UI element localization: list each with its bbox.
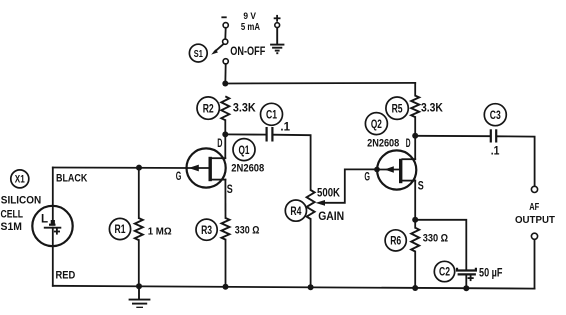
wire pot to rail [310,219,312,287]
svg-text:C1: C1 [266,108,277,122]
Q1 labels [176,136,265,196]
AF output label [515,202,555,226]
resistor R1 [109,168,171,241]
svg-text:S: S [227,182,233,196]
node rail C2 [463,285,469,291]
svg-text:2N2608: 2N2608 [367,137,399,149]
wire input rail to Q1 gate [53,167,187,170]
node R6/C2 tap [412,217,418,223]
wire R1 to rail [138,240,140,286]
node C3 tap [412,133,418,139]
svg-text:5 mA: 5 mA [241,22,260,33]
svg-text:BLACK: BLACK [56,172,87,184]
resistor R3 [196,218,260,240]
wire R6 to rail [414,252,416,289]
wire cell bottom to rail [52,246,54,286]
svg-text:9 V: 9 V [243,11,256,21]
transistor Q1 [187,148,226,187]
node rail R6 [412,285,418,291]
svg-text:330 Ω: 330 Ω [423,232,449,244]
capacitor C2 [434,261,502,281]
svg-text:500K: 500K [317,187,341,200]
node rail R4 [308,284,314,290]
svg-text:1 MΩ: 1 MΩ [148,226,172,237]
wire C3 to output [496,136,534,186]
capacitor C3 [484,104,506,158]
svg-text:X1: X1 [15,174,25,186]
svg-text:.1: .1 [280,120,290,133]
wire rail down to R5 [414,83,416,96]
node C1 tap [222,131,228,137]
ground (battery plus) [270,28,284,54]
X1 label [11,170,29,188]
svg-text:L: L [41,212,48,225]
svg-text:AF: AF [529,202,539,213]
svg-text:G: G [176,169,182,183]
svg-text:C3: C3 [490,108,501,122]
transistor Q2 [377,150,416,189]
svg-text:330 Ω: 330 Ω [235,225,260,237]
node Q2 gate [374,167,380,173]
S1 label [189,44,207,62]
svg-text:D: D [217,136,222,150]
switch S1 [211,28,228,64]
svg-text:G: G [364,170,370,184]
svg-text:S: S [418,179,424,193]
svg-text:R2: R2 [203,101,214,115]
battery plus terminal [275,16,280,28]
svg-text:3.3K: 3.3K [421,101,443,114]
resistor R6 [385,228,448,252]
node top rail junction [222,81,228,87]
svg-text:.1: .1 [491,144,500,157]
wire output to rail [534,240,536,289]
potentiometer R4 500K [285,187,344,223]
node rail R3 [223,284,229,290]
wire bottom rail [53,286,535,289]
AF output terminal top [531,186,537,192]
wire C2 to rail [465,274,467,288]
Q2 labels [364,113,423,193]
svg-text:RED: RED [56,270,76,282]
wire Q2 source down [414,181,416,228]
wire cell top to input rail [52,168,54,207]
svg-text:D: D [406,136,411,150]
resistor R2 [197,96,256,120]
svg-text:50 µF: 50 µF [479,267,503,280]
svg-text:S1M: S1M [1,221,22,233]
svg-text:R3: R3 [201,223,212,237]
SILICON CELL S1M label [1,194,42,233]
svg-text:R6: R6 [390,234,401,248]
wire R5 to Q2 drain [414,117,416,159]
svg-text:C2: C2 [439,265,450,279]
svg-text:R5: R5 [392,101,403,115]
svg-text:SILICON: SILICON [1,194,41,206]
wire top rail [225,82,415,85]
svg-text:ON-OFF: ON-OFF [230,45,265,58]
battery minus terminal [222,17,228,28]
svg-text:2N2608: 2N2608 [231,163,264,175]
node rail R1 [136,283,142,289]
wire R3 to rail [225,240,227,287]
svg-text:GAIN: GAIN [318,211,344,223]
svg-text:OUTPUT: OUTPUT [515,215,555,226]
wire node to C2 [415,220,466,270]
wiper R4 to Q2 gate [316,169,378,205]
wire Q1 source to R3 [224,180,226,218]
resistor R5 [386,96,444,120]
ground (main) [129,286,151,307]
svg-text:Q2: Q2 [371,117,382,131]
AF output terminal bottom [531,233,537,239]
photocell X1 [32,206,72,246]
wire R2 to C1 node [224,120,226,158]
svg-text:3.3K: 3.3K [233,102,256,115]
label 9V 5mA [241,11,260,33]
node R1 top [136,165,142,171]
svg-text:Q1: Q1 [239,143,250,157]
wire C3 branch [415,135,490,137]
wire switch to top rail junction [224,64,226,84]
svg-text:R1: R1 [115,222,126,236]
svg-text:S1: S1 [194,48,203,60]
svg-text:CELL: CELL [1,208,24,220]
wire C1 to pot [273,135,311,190]
capacitor C1 [225,103,290,141]
svg-text:R4: R4 [290,204,301,218]
